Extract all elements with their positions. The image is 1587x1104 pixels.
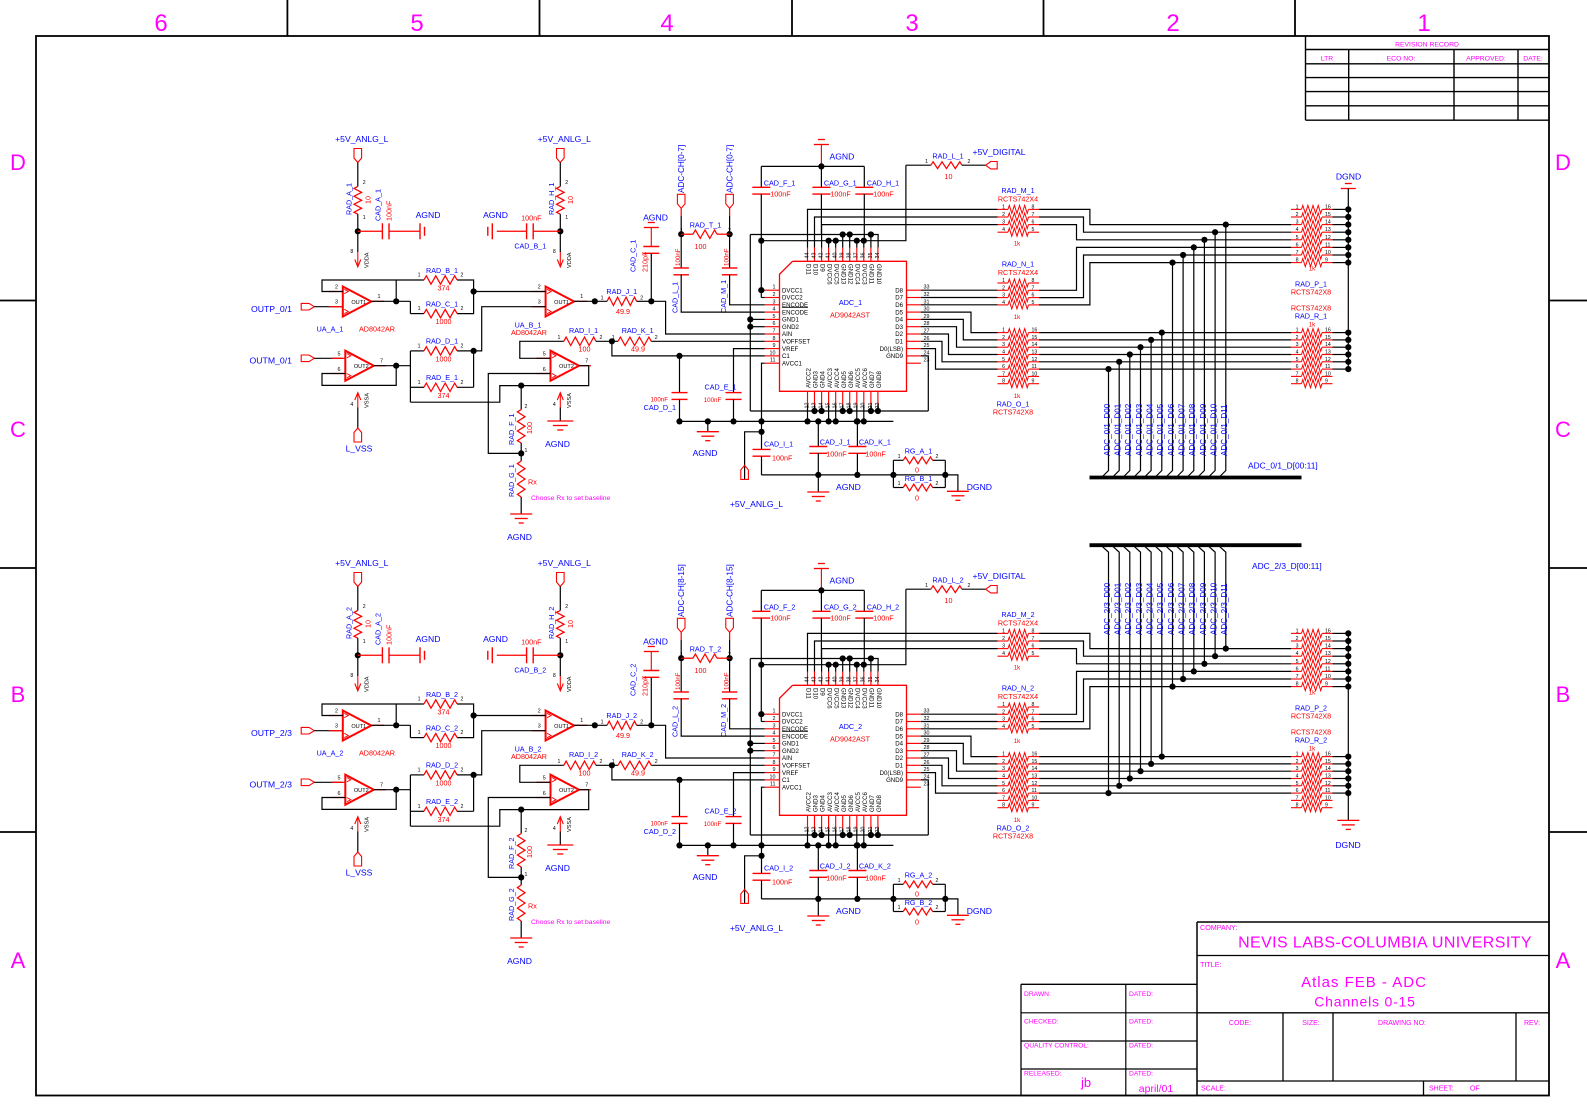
svg-text:1k: 1k [1014, 665, 1021, 672]
svg-text:44: 44 [804, 253, 810, 259]
svg-text:AGND: AGND [507, 956, 532, 966]
svg-text:CAD_L_1: CAD_L_1 [671, 282, 680, 313]
svg-text:11: 11 [1325, 788, 1330, 794]
svg-text:5: 5 [773, 314, 776, 320]
svg-text:1000: 1000 [436, 354, 452, 363]
svg-text:41: 41 [826, 253, 832, 259]
svg-text:38: 38 [847, 677, 853, 683]
svg-text:CAD_F_1: CAD_F_1 [764, 178, 796, 187]
svg-text:AGND: AGND [836, 482, 861, 492]
svg-text:2: 2 [1002, 709, 1005, 715]
svg-text:15: 15 [1032, 759, 1038, 765]
svg-text:D3: D3 [895, 324, 903, 331]
svg-text:5: 5 [1032, 724, 1035, 730]
svg-text:16: 16 [1032, 328, 1038, 334]
svg-text:1k: 1k [1014, 241, 1021, 248]
svg-text:100nF: 100nF [873, 614, 894, 623]
svg-text:8: 8 [1296, 803, 1299, 809]
svg-text:3: 3 [1296, 766, 1299, 772]
svg-text:2: 2 [461, 343, 464, 349]
svg-text:D11: D11 [804, 688, 811, 699]
svg-text:RCTS742X4: RCTS742X4 [998, 619, 1038, 628]
svg-text:5: 5 [1296, 781, 1299, 787]
svg-text:7: 7 [1296, 371, 1299, 377]
svg-text:1: 1 [1296, 628, 1299, 634]
svg-text:2: 2 [1296, 335, 1299, 341]
svg-text:D7: D7 [895, 719, 903, 726]
svg-text:8: 8 [1032, 702, 1035, 708]
svg-text:12: 12 [1032, 781, 1038, 787]
svg-text:UA_A_1: UA_A_1 [317, 325, 344, 334]
svg-text:100nF: 100nF [826, 450, 847, 459]
svg-text:4: 4 [1002, 300, 1005, 306]
svg-text:100nF: 100nF [772, 454, 793, 463]
svg-text:VSSA: VSSA [364, 817, 370, 832]
svg-text:GND5: GND5 [841, 794, 848, 812]
svg-text:DGND: DGND [967, 482, 992, 492]
svg-text:VSSA: VSSA [364, 393, 370, 408]
svg-text:12: 12 [1325, 781, 1331, 787]
svg-text:5: 5 [410, 10, 423, 37]
svg-text:10: 10 [1032, 371, 1038, 377]
svg-text:8: 8 [773, 760, 776, 766]
svg-text:14: 14 [1032, 766, 1038, 772]
svg-text:A: A [1556, 948, 1571, 973]
svg-text:2: 2 [773, 716, 776, 722]
svg-text:13: 13 [1325, 350, 1331, 356]
svg-text:10: 10 [945, 596, 953, 605]
svg-text:D10: D10 [811, 264, 818, 276]
svg-text:3: 3 [1296, 220, 1299, 226]
svg-text:100: 100 [525, 846, 534, 858]
svg-text:100nF: 100nF [873, 190, 894, 199]
svg-text:6: 6 [154, 10, 167, 37]
svg-text:9: 9 [1325, 379, 1328, 385]
svg-text:ADC-CH[0-7]: ADC-CH[0-7] [726, 145, 735, 193]
svg-text:7: 7 [773, 329, 776, 335]
svg-text:7: 7 [1032, 709, 1035, 715]
svg-text:RAD_F_2: RAD_F_2 [507, 837, 516, 869]
svg-text:1: 1 [773, 285, 776, 291]
svg-text:CAD_F_2: CAD_F_2 [764, 602, 796, 611]
svg-text:VOFFSET: VOFFSET [782, 339, 810, 346]
svg-text:11: 11 [1325, 242, 1330, 248]
svg-text:DVCC4: DVCC4 [854, 264, 861, 285]
svg-text:2: 2 [968, 583, 971, 589]
svg-text:AD9042AST: AD9042AST [830, 735, 871, 744]
svg-text:8: 8 [1296, 258, 1299, 264]
svg-text:RAD_B_1: RAD_B_1 [426, 266, 458, 275]
svg-text:DATED:: DATED: [1129, 1071, 1153, 1078]
svg-text:4: 4 [350, 402, 353, 408]
svg-text:100nF: 100nF [772, 878, 793, 887]
svg-text:RELEASED:: RELEASED: [1024, 1071, 1062, 1078]
svg-text:37: 37 [854, 677, 860, 683]
svg-text:11: 11 [1325, 364, 1330, 370]
svg-text:1k: 1k [1309, 746, 1316, 753]
svg-text:2: 2 [1166, 10, 1179, 37]
svg-text:GND2: GND2 [782, 748, 800, 755]
svg-text:D3: D3 [895, 748, 903, 755]
svg-text:D11: D11 [804, 264, 811, 275]
svg-text:1: 1 [1296, 328, 1299, 334]
svg-text:1k: 1k [1309, 266, 1316, 273]
svg-text:RAD_L_2: RAD_L_2 [932, 576, 963, 585]
svg-text:100nF: 100nF [723, 248, 730, 266]
svg-text:3: 3 [538, 724, 541, 730]
svg-text:RAD_D_1: RAD_D_1 [426, 337, 458, 346]
svg-text:ADC_0/1_D00: ADC_0/1_D00 [1103, 403, 1112, 456]
svg-text:1: 1 [1002, 328, 1005, 334]
svg-text:AVCC6: AVCC6 [862, 368, 869, 388]
svg-text:3: 3 [773, 299, 776, 305]
svg-text:1: 1 [363, 215, 366, 221]
svg-text:0: 0 [915, 494, 919, 503]
svg-text:DGND: DGND [1335, 840, 1360, 850]
svg-text:5: 5 [543, 352, 546, 358]
svg-text:2: 2 [1296, 212, 1299, 218]
svg-text:VDDA: VDDA [364, 252, 370, 268]
svg-text:4: 4 [1002, 774, 1005, 780]
svg-text:GND6: GND6 [848, 794, 855, 812]
svg-text:7: 7 [1032, 285, 1035, 291]
svg-text:6: 6 [1296, 242, 1299, 248]
svg-text:1: 1 [612, 759, 615, 765]
svg-text:AVCC1: AVCC1 [782, 784, 802, 791]
svg-text:1: 1 [1002, 628, 1005, 634]
svg-text:9: 9 [1325, 803, 1328, 809]
svg-text:39: 39 [840, 253, 846, 259]
svg-text:C: C [10, 417, 26, 442]
svg-text:DVCC6: DVCC6 [826, 688, 833, 709]
svg-text:RAD_C_2: RAD_C_2 [426, 723, 458, 732]
svg-text:AD8042AR: AD8042AR [359, 749, 395, 758]
svg-text:1: 1 [680, 228, 683, 234]
svg-text:1: 1 [1002, 204, 1005, 210]
svg-text:CAD_C_1: CAD_C_1 [629, 240, 638, 272]
svg-text:6: 6 [1032, 293, 1035, 299]
svg-text:3: 3 [335, 300, 338, 306]
svg-text:40: 40 [833, 253, 839, 259]
svg-text:11: 11 [1325, 666, 1330, 672]
svg-text:GND4: GND4 [820, 370, 827, 388]
svg-text:374: 374 [438, 284, 450, 293]
svg-text:7: 7 [1296, 795, 1299, 801]
svg-text:1k: 1k [1014, 738, 1021, 745]
svg-text:4: 4 [1002, 651, 1005, 657]
svg-text:ADC_2/3_D10: ADC_2/3_D10 [1209, 582, 1218, 635]
svg-text:100nF: 100nF [830, 614, 851, 623]
svg-text:36: 36 [861, 253, 867, 259]
svg-text:1: 1 [1002, 278, 1005, 284]
svg-text:april/01: april/01 [1139, 1083, 1174, 1095]
svg-text:DVCC1: DVCC1 [782, 711, 803, 718]
svg-text:14: 14 [1325, 766, 1331, 772]
svg-text:2: 2 [525, 404, 528, 410]
svg-text:1: 1 [558, 759, 561, 765]
svg-text:1: 1 [1002, 752, 1005, 758]
svg-text:OUT1: OUT1 [351, 724, 366, 730]
svg-text:37: 37 [854, 253, 860, 259]
svg-text:D2: D2 [895, 755, 903, 762]
svg-text:RCTS742X4: RCTS742X4 [998, 195, 1038, 204]
svg-text:OUTM_0/1: OUTM_0/1 [250, 355, 293, 365]
svg-text:GND12: GND12 [847, 688, 854, 709]
svg-text:ADC_0/1_D06: ADC_0/1_D06 [1167, 403, 1176, 456]
svg-text:RG_B_2: RG_B_2 [905, 898, 933, 907]
svg-text:1: 1 [418, 380, 421, 386]
svg-text:1k: 1k [1309, 690, 1316, 697]
svg-text:16: 16 [1325, 752, 1331, 758]
svg-text:RG_A_1: RG_A_1 [905, 447, 933, 456]
svg-text:13: 13 [1032, 350, 1038, 356]
svg-text:1: 1 [418, 273, 421, 279]
svg-text:9: 9 [1325, 682, 1328, 688]
svg-text:TITLE:: TITLE: [1200, 960, 1222, 969]
svg-text:DVCC6: DVCC6 [826, 264, 833, 285]
svg-text:8: 8 [1002, 379, 1005, 385]
svg-text:D: D [1555, 150, 1571, 175]
svg-text:ADC_2/3_D09: ADC_2/3_D09 [1199, 582, 1208, 635]
svg-text:6: 6 [1032, 717, 1035, 723]
svg-text:RAD_L_1: RAD_L_1 [932, 152, 963, 161]
svg-text:D0(LSB): D0(LSB) [880, 770, 903, 777]
svg-text:AVCC3: AVCC3 [827, 792, 834, 812]
svg-text:100nF: 100nF [704, 821, 722, 828]
svg-text:9: 9 [773, 767, 776, 773]
svg-text:RAD_R_2: RAD_R_2 [1295, 736, 1327, 745]
svg-text:2: 2 [1002, 636, 1005, 642]
svg-text:D1: D1 [895, 763, 903, 770]
svg-text:13: 13 [1325, 774, 1331, 780]
svg-text:ADC_2/3_D02: ADC_2/3_D02 [1124, 582, 1133, 635]
svg-text:CAD_D_1: CAD_D_1 [644, 403, 676, 412]
svg-text:4: 4 [1296, 651, 1299, 657]
svg-text:ADC_0/1_D[00:11]: ADC_0/1_D[00:11] [1248, 461, 1318, 471]
svg-text:AD8042AR: AD8042AR [359, 325, 395, 334]
svg-text:AVCC6: AVCC6 [862, 792, 869, 812]
svg-text:REV:: REV: [1524, 1020, 1540, 1027]
svg-text:D1: D1 [895, 339, 903, 346]
svg-text:3: 3 [1002, 717, 1005, 723]
svg-text:GND1: GND1 [782, 741, 800, 748]
svg-text:14: 14 [1325, 220, 1331, 226]
svg-text:2: 2 [1002, 212, 1005, 218]
svg-text:1: 1 [925, 159, 928, 165]
svg-text:11: 11 [770, 782, 776, 788]
svg-text:OUTM_2/3: OUTM_2/3 [250, 779, 293, 789]
svg-text:2: 2 [640, 719, 643, 725]
svg-text:GND11: GND11 [868, 688, 875, 708]
svg-text:RCTS742X8: RCTS742X8 [1291, 712, 1331, 721]
svg-text:100: 100 [695, 242, 707, 251]
svg-text:1: 1 [925, 583, 928, 589]
svg-text:ADC_0/1_D11: ADC_0/1_D11 [1220, 404, 1229, 456]
svg-text:3: 3 [773, 723, 776, 729]
svg-text:4: 4 [1002, 724, 1005, 730]
svg-text:AGND: AGND [483, 210, 508, 220]
svg-text:DVCC2: DVCC2 [782, 295, 803, 302]
svg-text:ADC_0/1_D07: ADC_0/1_D07 [1178, 403, 1187, 456]
svg-text:GND3: GND3 [813, 794, 820, 812]
svg-text:AVCC3: AVCC3 [827, 368, 834, 388]
svg-text:CAD_G_1: CAD_G_1 [824, 178, 857, 187]
svg-text:10: 10 [566, 196, 575, 204]
svg-text:AVCC1: AVCC1 [782, 360, 802, 367]
svg-text:RAD_J_1: RAD_J_1 [606, 287, 637, 296]
svg-text:RCTS742X4: RCTS742X4 [998, 692, 1038, 701]
svg-text:7: 7 [1002, 795, 1005, 801]
svg-text:Channels 0-15: Channels 0-15 [1314, 994, 1415, 1010]
svg-text:RAD_K_1: RAD_K_1 [622, 326, 654, 335]
svg-text:GND6: GND6 [848, 370, 855, 388]
svg-text:10: 10 [363, 620, 372, 628]
svg-text:100: 100 [579, 345, 591, 354]
svg-text:+5V_ANLG_L: +5V_ANLG_L [335, 134, 388, 144]
svg-text:8: 8 [350, 673, 353, 679]
svg-text:210pF: 210pF [641, 675, 650, 696]
svg-text:100nF: 100nF [865, 450, 886, 459]
svg-text:AGND: AGND [416, 210, 441, 220]
svg-text:100nF: 100nF [675, 672, 682, 690]
svg-text:1: 1 [1002, 702, 1005, 708]
svg-text:AGND: AGND [693, 448, 718, 458]
svg-text:GND8: GND8 [876, 794, 883, 812]
svg-text:1: 1 [898, 481, 901, 487]
svg-text:49.9: 49.9 [631, 345, 645, 354]
svg-text:5: 5 [1296, 235, 1299, 241]
svg-text:210pF: 210pF [641, 251, 650, 272]
svg-text:0: 0 [915, 918, 919, 927]
svg-text:ADC-CH[8-15]: ADC-CH[8-15] [677, 564, 686, 617]
svg-text:OUT2: OUT2 [354, 788, 369, 794]
svg-text:D10: D10 [811, 688, 818, 700]
svg-text:+5V_DIGITAL: +5V_DIGITAL [972, 147, 1025, 157]
svg-text:AVCC2: AVCC2 [806, 792, 813, 812]
svg-text:5: 5 [1002, 781, 1005, 787]
svg-text:10: 10 [1325, 250, 1331, 256]
svg-text:100nF: 100nF [675, 248, 682, 266]
svg-text:10: 10 [945, 172, 953, 181]
svg-text:SCALE:: SCALE: [1201, 1086, 1226, 1093]
svg-text:AVCC5: AVCC5 [855, 368, 862, 388]
svg-text:1: 1 [363, 639, 366, 645]
svg-text:ENCODE: ENCODE [782, 726, 808, 733]
svg-text:40: 40 [833, 677, 839, 683]
svg-text:ADC_0/1_D05: ADC_0/1_D05 [1156, 403, 1165, 456]
svg-text:1k: 1k [1014, 314, 1021, 321]
svg-text:GND7: GND7 [869, 370, 876, 388]
svg-text:1: 1 [525, 872, 528, 878]
svg-text:GND1: GND1 [782, 317, 800, 324]
svg-text:OUT1: OUT1 [554, 724, 569, 730]
svg-text:ADC_0/1_D03: ADC_0/1_D03 [1135, 403, 1144, 456]
svg-text:GND8: GND8 [876, 370, 883, 388]
svg-text:13: 13 [1325, 227, 1331, 233]
svg-text:5: 5 [1296, 357, 1299, 363]
svg-text:3: 3 [1002, 293, 1005, 299]
svg-text:2: 2 [335, 709, 338, 715]
svg-text:12: 12 [1325, 659, 1331, 665]
svg-text:39: 39 [840, 677, 846, 683]
svg-text:CAD_B_1: CAD_B_1 [514, 242, 546, 251]
svg-text:2: 2 [461, 730, 464, 736]
svg-text:2: 2 [538, 285, 541, 291]
svg-text:7: 7 [1032, 212, 1035, 218]
svg-text:6: 6 [543, 791, 546, 797]
svg-text:DVCC3: DVCC3 [861, 264, 868, 285]
svg-text:ADC-CH[8-15]: ADC-CH[8-15] [726, 564, 735, 617]
svg-text:1: 1 [418, 767, 421, 773]
svg-text:CAD_E_2: CAD_E_2 [705, 807, 737, 816]
svg-text:D9: D9 [818, 264, 825, 272]
svg-text:Atlas FEB - ADC: Atlas FEB - ADC [1301, 974, 1427, 991]
svg-text:CAD_J_2: CAD_J_2 [820, 862, 851, 871]
svg-text:6: 6 [1002, 788, 1005, 794]
svg-text:6: 6 [1002, 364, 1005, 370]
svg-text:49.9: 49.9 [616, 307, 630, 316]
svg-text:2: 2 [565, 180, 568, 186]
svg-text:16: 16 [1325, 328, 1331, 334]
svg-text:ADC_0/1_D01: ADC_0/1_D01 [1114, 403, 1123, 456]
svg-text:RAD_R_1: RAD_R_1 [1295, 312, 1327, 321]
svg-text:9: 9 [1325, 258, 1328, 264]
svg-text:DATE:: DATE: [1523, 56, 1543, 63]
svg-text:1: 1 [601, 295, 604, 301]
svg-text:374: 374 [438, 391, 450, 400]
svg-text:B: B [11, 682, 26, 707]
svg-text:DRAWING NO:: DRAWING NO: [1378, 1020, 1426, 1027]
svg-text:OUTP_2/3: OUTP_2/3 [251, 728, 292, 738]
svg-text:DATED:: DATED: [1129, 1043, 1153, 1050]
svg-text:ADC_2/3_D06: ADC_2/3_D06 [1167, 582, 1176, 635]
svg-text:ECO NO:: ECO NO: [1387, 56, 1416, 63]
svg-text:RAD_E_1: RAD_E_1 [426, 373, 458, 382]
svg-text:41: 41 [826, 677, 832, 683]
svg-text:RAD_B_2: RAD_B_2 [426, 690, 458, 699]
svg-text:1: 1 [378, 294, 381, 300]
svg-text:2: 2 [936, 878, 939, 884]
svg-text:8: 8 [1296, 379, 1299, 385]
svg-text:1: 1 [418, 343, 421, 349]
svg-text:15: 15 [1325, 335, 1331, 341]
svg-text:7: 7 [1032, 636, 1035, 642]
svg-text:C1: C1 [782, 777, 790, 784]
svg-text:100nF: 100nF [521, 638, 542, 647]
svg-text:VOFFSET: VOFFSET [782, 763, 810, 770]
svg-text:4: 4 [1296, 227, 1299, 233]
svg-text:8: 8 [1032, 628, 1035, 634]
svg-text:AGND: AGND [483, 634, 508, 644]
svg-text:QUALITY CONTROL:: QUALITY CONTROL: [1024, 1043, 1089, 1050]
svg-text:14: 14 [1325, 342, 1331, 348]
svg-text:12: 12 [1325, 357, 1331, 363]
svg-text:RAD_E_2: RAD_E_2 [426, 797, 458, 806]
svg-text:100nF: 100nF [865, 874, 886, 883]
svg-text:AVCC2: AVCC2 [806, 368, 813, 388]
svg-text:2: 2 [773, 292, 776, 298]
svg-text:UA_A_2: UA_A_2 [317, 749, 344, 758]
svg-text:10: 10 [1325, 795, 1331, 801]
svg-text:VSSA: VSSA [567, 817, 573, 832]
svg-text:DVCC5: DVCC5 [833, 688, 840, 709]
svg-text:7: 7 [773, 753, 776, 759]
svg-text:3: 3 [1296, 342, 1299, 348]
svg-text:DVCC1: DVCC1 [782, 287, 803, 294]
svg-text:100nF: 100nF [770, 190, 791, 199]
svg-text:10: 10 [1325, 674, 1331, 680]
svg-text:RAD_H_2: RAD_H_2 [547, 607, 556, 639]
